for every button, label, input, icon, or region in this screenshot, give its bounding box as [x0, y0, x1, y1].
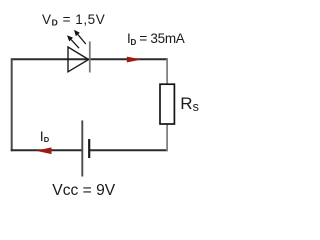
- LED light arrow 1 head: [67, 35, 73, 41]
- svg-text:ID = 35mA: ID = 35mA: [127, 31, 185, 47]
- svg-text:VD = 1,5V: VD = 1,5V: [42, 12, 105, 28]
- LED cathode bar: [89, 41, 91, 72]
- current arrow ID top (red, pointing right): [127, 57, 142, 63]
- current arrow ID bottom (red, pointing left): [36, 147, 52, 154]
- wire bottom right segment: [89, 149, 168, 151]
- wire right: [166, 59, 168, 152]
- wire bottom left segment: [11, 149, 83, 151]
- resistor Rs: [160, 84, 174, 124]
- wire top: [11, 58, 168, 60]
- battery Vcc long plate: [81, 120, 83, 176]
- LED light arrow 2 head: [74, 30, 80, 36]
- battery Vcc short plate: [88, 139, 90, 158]
- wire left: [11, 58, 13, 151]
- svg-text:Vcc = 9V: Vcc = 9V: [52, 182, 115, 199]
- LED light arrow 2 shaft: [78, 34, 86, 44]
- LED light arrow 1 shaft: [71, 40, 79, 49]
- LED D1 triangle: [68, 47, 89, 72]
